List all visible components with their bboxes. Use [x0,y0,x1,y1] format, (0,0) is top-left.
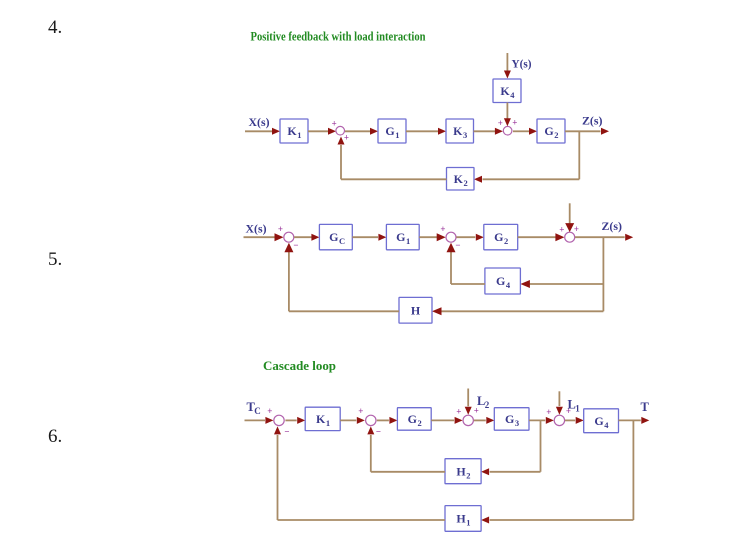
svg-text:2: 2 [504,236,508,246]
svg-text:4: 4 [506,280,511,290]
svg-text:G: G [594,414,603,428]
svg-text:5.: 5. [48,249,62,270]
svg-text:2: 2 [463,178,467,188]
svg-text:K: K [287,124,297,138]
svg-text:G: G [329,230,338,244]
svg-text:1: 1 [406,236,410,246]
svg-text:+: + [512,118,517,128]
svg-text:H: H [456,512,466,526]
svg-text:2: 2 [554,130,558,140]
svg-text:H: H [411,303,421,317]
svg-text:G: G [505,412,514,426]
svg-text:+: + [278,224,283,234]
svg-text:2: 2 [466,470,470,480]
svg-text:G: G [544,124,553,138]
svg-text:Z(s): Z(s) [582,113,603,127]
svg-text:Cascade loop: Cascade loop [263,358,336,373]
svg-text:1: 1 [395,130,399,140]
svg-text:+: + [498,118,503,128]
svg-text:+: + [440,224,445,234]
svg-text:1: 1 [326,418,330,428]
svg-text:G: G [494,230,503,244]
svg-text:G: G [496,274,505,288]
svg-text:1: 1 [575,404,580,414]
svg-text:G: G [396,230,405,244]
svg-text:T: T [641,400,650,414]
svg-text:+: + [358,406,363,416]
svg-text:3: 3 [515,418,519,428]
svg-text:4: 4 [604,420,609,430]
svg-text:C: C [254,406,261,416]
svg-text:2: 2 [485,400,490,410]
svg-text:G: G [385,124,394,138]
svg-text:X(s): X(s) [249,115,270,129]
svg-text:Positive feedback with load in: Positive feedback with load interaction [251,29,427,44]
svg-text:−: − [284,427,289,437]
svg-text:+: + [574,224,579,234]
svg-text:+: + [559,225,564,235]
svg-text:K: K [453,124,463,138]
svg-text:+: + [267,406,272,416]
svg-text:2: 2 [418,418,422,428]
svg-text:3: 3 [463,130,467,140]
svg-text:G: G [408,412,417,426]
svg-text:6.: 6. [48,426,62,447]
svg-text:K: K [454,172,464,186]
svg-text:K: K [316,412,326,426]
svg-text:H: H [456,464,466,478]
svg-text:−: − [455,240,460,250]
svg-text:−: − [376,427,381,437]
svg-text:+: + [456,406,461,416]
svg-text:4.: 4. [48,17,62,38]
svg-text:1: 1 [466,518,470,528]
svg-text:C: C [339,236,345,246]
svg-text:Y(s): Y(s) [512,57,532,71]
svg-text:−: − [293,240,298,250]
svg-text:+: + [332,119,337,129]
svg-text:Z(s): Z(s) [602,219,623,233]
svg-text:4: 4 [510,90,515,100]
svg-text:1: 1 [297,130,301,140]
svg-text:+: + [546,407,551,417]
svg-text:+: + [344,132,349,142]
svg-text:K: K [500,84,510,98]
svg-text:X(s): X(s) [246,221,267,235]
